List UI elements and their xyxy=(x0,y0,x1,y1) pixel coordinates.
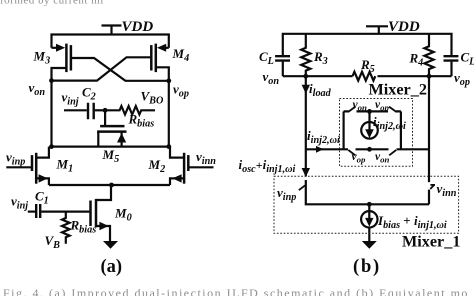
transistor M0 channel bar xyxy=(95,199,98,227)
transistor M0 drain lead xyxy=(96,185,111,200)
svg-text:M4: M4 xyxy=(172,46,190,64)
mixer2 bottom wire with switch gaps xyxy=(344,148,429,150)
svg-text:vop: vop xyxy=(375,99,390,113)
transistor M4 channel bar xyxy=(155,44,158,73)
arrow M3 source (PMOS) xyxy=(56,44,65,52)
wire v_inn switch lower xyxy=(428,190,430,205)
current source I_bias shaft xyxy=(368,204,370,241)
arrow left bus down (i_osc) xyxy=(302,168,310,177)
capacitor CL right plates xyxy=(444,56,459,60)
svg-text:formed by current mi: formed by current mi xyxy=(0,0,104,7)
transistor M2 source lead xyxy=(170,178,184,185)
capacitor CL left bottom lead xyxy=(282,62,284,77)
svg-text:C2: C2 xyxy=(82,85,96,103)
svg-text:C1: C1 xyxy=(35,189,49,207)
VDD supply symbol (a) xyxy=(102,26,122,35)
mixer2 top-left switch blade xyxy=(348,107,356,112)
svg-text:vinn: vinn xyxy=(196,149,216,167)
wire v_inp switch lower xyxy=(306,180,429,204)
capacitor C2 left lead xyxy=(64,109,87,111)
svg-text:von: von xyxy=(263,69,280,87)
resistor Rbias (upper) zigzag xyxy=(105,106,155,114)
switch v_inp blade xyxy=(299,185,305,190)
mixer2 top-right switch blade xyxy=(389,107,397,112)
svg-text:VB: VB xyxy=(45,233,61,251)
wire v_on vertical xyxy=(50,81,52,147)
svg-text:Ibias + iinj1,ωi: Ibias + iinj1,ωi xyxy=(377,213,447,231)
svg-text:CL: CL xyxy=(461,50,474,68)
svg-text:(b): (b) xyxy=(353,257,381,277)
node I_bias top dot xyxy=(367,202,372,207)
transistor M5 gate lead xyxy=(104,110,106,125)
arrow M2 source xyxy=(172,174,181,182)
svg-text:iosc+iinj1,ωi: iosc+iinj1,ωi xyxy=(239,157,296,175)
mixer2 top wire with switch gaps xyxy=(344,110,401,112)
arrow M1 source xyxy=(39,174,48,182)
node R4/v_op dot xyxy=(427,74,432,79)
wire gate M3 to v_op node (cross-couple) xyxy=(72,58,169,81)
node M5 rail right dot xyxy=(166,144,171,149)
transistor M0 gate bar xyxy=(89,201,92,227)
transistor M2 gate bar xyxy=(187,155,190,171)
mixer2 inner right vertical xyxy=(400,111,402,149)
svg-text:M5: M5 xyxy=(102,147,120,165)
node v_on dot xyxy=(49,78,54,83)
svg-text:iinj2,ωi: iinj2,ωi xyxy=(307,128,340,146)
wire right bus xyxy=(428,76,430,182)
switch v_inn blade xyxy=(430,185,435,189)
svg-text:vinj: vinj xyxy=(62,90,79,108)
capacitor C2 plates xyxy=(88,103,94,120)
svg-text:(a): (a) xyxy=(101,257,123,277)
capacitor CL right bottom lead xyxy=(450,62,452,77)
svg-text:VDD: VDD xyxy=(122,19,154,35)
svg-text:M0: M0 xyxy=(114,206,132,224)
node R3/v_on dot xyxy=(303,74,308,79)
node mixer2 top dot xyxy=(367,109,372,114)
transistor M1 channel bar xyxy=(35,153,38,184)
svg-text:Mixer_2: Mixer_2 xyxy=(369,81,427,99)
capacitor CL left plates xyxy=(275,56,290,60)
node C2-Rbias-M5 gate dot xyxy=(103,108,108,113)
svg-text:Rbias: Rbias xyxy=(70,218,97,236)
resistor R5 xyxy=(353,72,376,81)
svg-text:R4: R4 xyxy=(409,51,424,69)
current source i_inj2 shaft xyxy=(368,111,370,131)
wire v_inn gate lead M2 xyxy=(189,166,213,168)
wire VDD rail (b) xyxy=(283,34,452,56)
node mixer2 bottom dot xyxy=(367,147,372,152)
svg-text:iload: iload xyxy=(309,81,332,99)
transistor M5 source lead xyxy=(97,132,99,147)
node M5 rail left dot xyxy=(49,144,54,149)
svg-text:M1: M1 xyxy=(56,157,74,175)
transistor M5 gate bar xyxy=(100,125,124,128)
arrow on mixer2 feed wire xyxy=(316,146,324,153)
mixer1 dotted box xyxy=(274,176,459,233)
ground symbol (b) xyxy=(362,241,377,249)
wire left bus (i_load) xyxy=(305,76,307,176)
transistor M1 gate bar xyxy=(31,155,34,171)
svg-text:vinp: vinp xyxy=(277,185,296,203)
wire v_inp gate lead M1 xyxy=(6,166,31,168)
resistor Rbias (lower) zigzag xyxy=(62,212,70,244)
wire v_on/v_op rail (b) xyxy=(283,75,452,77)
svg-text:CL: CL xyxy=(259,49,274,67)
mixer2 bottom-right switch blade xyxy=(389,150,396,155)
arrow M0 source xyxy=(99,222,108,230)
capacitor C2 right lead xyxy=(95,109,105,111)
svg-text:R3: R3 xyxy=(313,49,328,67)
svg-text:von: von xyxy=(353,99,368,113)
wire gate M4 to v_on node (cross-couple) xyxy=(52,57,151,80)
transistor M2 channel bar xyxy=(183,153,186,184)
svg-text:Mixer_1: Mixer_1 xyxy=(402,233,460,251)
mixer2 inner left vertical xyxy=(343,111,345,149)
transistor M3 channel bar xyxy=(65,44,68,73)
arrow inside I_bias source (down) xyxy=(365,218,373,227)
transistor M0 source lead xyxy=(96,226,110,241)
svg-text:vinn: vinn xyxy=(437,181,457,199)
transistor M1 drain lead xyxy=(36,147,49,158)
wire M5 bottom rail xyxy=(52,146,169,148)
transistor M4 drain lead xyxy=(156,67,169,81)
transistor M4 gate bar xyxy=(150,45,153,70)
svg-text:M2: M2 xyxy=(148,157,166,175)
transistor M5 channel bar xyxy=(97,130,126,133)
svg-text:von: von xyxy=(375,151,390,165)
transistor M4 source lead xyxy=(164,47,169,49)
svg-text:von: von xyxy=(29,80,46,98)
wire mixer2 feed (i_inj2) xyxy=(306,148,344,150)
node common source dot xyxy=(109,183,114,188)
node v_op dot xyxy=(166,78,171,83)
current source I_bias circle xyxy=(361,211,377,227)
svg-text:VBO: VBO xyxy=(141,89,164,107)
svg-text:Rbias: Rbias xyxy=(128,112,155,130)
transistor M3 gate bar xyxy=(70,45,73,70)
svg-text:M3: M3 xyxy=(33,49,51,67)
ground symbol (a) xyxy=(103,241,118,249)
VDD supply symbol (b) xyxy=(366,26,388,34)
wire VDD rail (a) xyxy=(52,35,169,48)
svg-text:vop: vop xyxy=(173,82,189,100)
capacitor C1 plates xyxy=(36,204,40,218)
transistor M5 drain lead xyxy=(120,132,122,147)
arrow M4 source (PMOS) xyxy=(157,44,166,52)
wire common source rail xyxy=(49,184,170,186)
svg-text:vop: vop xyxy=(352,151,367,165)
arrow inside i_inj2 source (down) xyxy=(365,129,374,138)
svg-text:vinj: vinj xyxy=(11,194,28,212)
transistor M3 source lead xyxy=(52,47,59,49)
resistor R4 xyxy=(424,34,433,77)
transistor M2 drain lead xyxy=(170,147,184,158)
svg-text:vop: vop xyxy=(454,70,470,88)
transistor M1 source lead xyxy=(36,178,49,185)
resistor R3 xyxy=(301,34,310,77)
mixer2 bottom-left switch blade xyxy=(348,150,355,155)
wire v_op vertical xyxy=(168,81,170,147)
capacitor C1 right lead / M0 gate wire xyxy=(41,211,89,213)
transistor M3 drain lead xyxy=(52,68,67,81)
svg-text:Fig. 4. (a) Improved dual-inje: Fig. 4. (a) Improved dual-injection ILFD… xyxy=(3,286,469,296)
svg-text:VDD: VDD xyxy=(388,19,420,35)
arrow M5 lead (up) xyxy=(117,133,126,143)
mixer2 dotted box xyxy=(340,99,413,167)
capacitor C1 left lead xyxy=(28,211,35,213)
arrow i_load (down) xyxy=(302,85,310,94)
svg-text:vinp: vinp xyxy=(6,150,25,168)
current source i_inj2 circle xyxy=(361,122,378,139)
